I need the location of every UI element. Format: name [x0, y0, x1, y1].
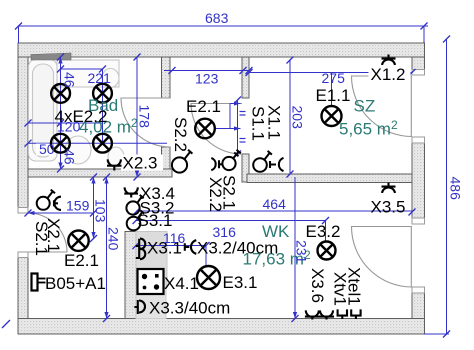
svg-text:464: 464 — [263, 196, 287, 212]
svg-text:123: 123 — [195, 71, 219, 87]
svg-text:X1.1: X1.1 — [265, 105, 284, 140]
svg-text:X3.6: X3.6 — [308, 268, 327, 303]
svg-text:316: 316 — [213, 224, 237, 240]
svg-text:X2.3: X2.3 — [123, 154, 158, 173]
svg-text:S2.1: S2.1 — [220, 175, 239, 210]
svg-text:50: 50 — [39, 141, 55, 157]
svg-text:5,65 m2: 5,65 m2 — [339, 118, 398, 139]
svg-text:X3.3/40cm: X3.3/40cm — [149, 299, 230, 318]
svg-text:X4.1: X4.1 — [164, 274, 199, 293]
svg-text:X3.2/40cm: X3.2/40cm — [197, 239, 278, 258]
svg-text:S2.2: S2.2 — [171, 117, 190, 152]
svg-text:486: 486 — [448, 177, 464, 201]
svg-text:SZ: SZ — [354, 97, 376, 116]
svg-text:221: 221 — [88, 70, 112, 86]
svg-text:S3.1: S3.1 — [138, 211, 173, 230]
svg-text:203: 203 — [290, 106, 306, 130]
svg-text:159: 159 — [66, 198, 90, 214]
svg-text:E2.1: E2.1 — [186, 97, 221, 116]
svg-text:103: 103 — [93, 199, 109, 223]
svg-text:E3.2: E3.2 — [306, 222, 341, 241]
svg-text:46: 46 — [62, 149, 78, 165]
svg-text:E3.1: E3.1 — [223, 273, 258, 292]
svg-text:46: 46 — [62, 72, 78, 88]
svg-text:E1.1: E1.1 — [316, 86, 351, 105]
svg-text:240: 240 — [106, 227, 122, 251]
svg-text:E2.1: E2.1 — [64, 251, 99, 270]
svg-text:231: 231 — [294, 240, 310, 264]
svg-text:275: 275 — [322, 70, 346, 86]
svg-text:683: 683 — [205, 10, 229, 26]
svg-text:X1.2: X1.2 — [371, 65, 406, 84]
svg-text:S2.1: S2.1 — [32, 221, 51, 256]
svg-text:B05+A1: B05+A1 — [45, 274, 106, 293]
svg-text:178: 178 — [137, 105, 153, 129]
svg-text:120: 120 — [57, 119, 81, 135]
svg-text:Xtel1: Xtel1 — [345, 267, 364, 306]
svg-text:116: 116 — [163, 230, 186, 246]
svg-text:X3.5: X3.5 — [371, 198, 406, 217]
